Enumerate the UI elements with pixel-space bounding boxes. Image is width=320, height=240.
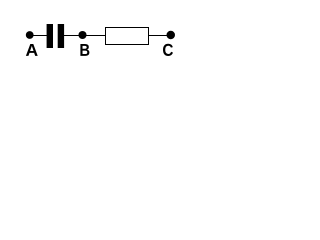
node C (junction dot): [167, 31, 176, 40]
wire resistor to node C: [149, 35, 171, 37]
node B (junction dot): [78, 31, 86, 39]
wire node A to capacitor left plate: [30, 35, 47, 37]
node A (junction dot): [26, 31, 34, 39]
capacitor (left plate): [47, 24, 53, 48]
label A: [26, 44, 38, 56]
wire node B to resistor: [83, 35, 106, 37]
wire capacitor right plate to node B: [64, 35, 83, 37]
label B: [80, 44, 89, 56]
capacitor (right plate): [58, 24, 64, 48]
label C: [163, 44, 173, 56]
resistor (box body): [106, 28, 149, 45]
